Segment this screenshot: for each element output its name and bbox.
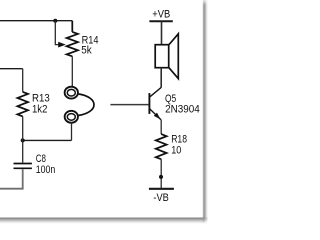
wire horizontal to R13 node bbox=[23, 139, 72, 141]
transistor Q5 bbox=[149, 87, 161, 119]
page bottom edge shadow bbox=[0, 218, 202, 224]
svg-text:-VB: -VB bbox=[153, 192, 168, 204]
wire below C8 bbox=[0, 169, 23, 189]
svg-text:2N3904: 2N3904 bbox=[165, 104, 200, 116]
resistor R13 bbox=[17, 69, 28, 163]
page right edge shadow top fade bbox=[202, 0, 207, 5]
wire top input bbox=[0, 20, 72, 22]
headphone headband arc bbox=[79, 94, 94, 115]
resistor R14 bbox=[67, 21, 78, 87]
wire below bottom earpiece bbox=[71, 122, 73, 140]
node junction left bbox=[21, 138, 25, 142]
wire wiper branch bbox=[55, 21, 58, 45]
headphone jack top earpiece bbox=[65, 87, 78, 99]
power rail -VB bar bbox=[149, 188, 174, 190]
svg-text:100n: 100n bbox=[36, 164, 56, 176]
headphone jack bottom earpiece bbox=[65, 111, 78, 123]
wiper arrow of R14 bbox=[58, 42, 66, 48]
wire R18 to -VB bbox=[160, 159, 162, 188]
node junction top bbox=[53, 19, 57, 23]
wire emitter to R18 bbox=[160, 120, 162, 134]
speaker LS1 box bbox=[155, 45, 169, 68]
power rail +VB bar bbox=[149, 20, 172, 22]
page bottom-right corner shadow bbox=[202, 217, 208, 224]
wire +VB to speaker bbox=[161, 21, 163, 45]
page right edge shadow bbox=[202, 0, 207, 218]
svg-text:5k: 5k bbox=[81, 45, 92, 57]
svg-text:+VB: +VB bbox=[152, 8, 170, 20]
resistor R18 bbox=[156, 134, 167, 159]
node junction emitter rail bbox=[159, 175, 163, 179]
capacitor C8 bbox=[14, 164, 32, 169]
wire base stub bbox=[110, 104, 148, 106]
svg-text:10: 10 bbox=[171, 145, 181, 157]
wire left input to R13 bbox=[0, 68, 23, 70]
svg-text:1k2: 1k2 bbox=[32, 103, 47, 115]
wire speaker to collector bbox=[160, 68, 162, 88]
speaker cone bbox=[169, 34, 179, 79]
